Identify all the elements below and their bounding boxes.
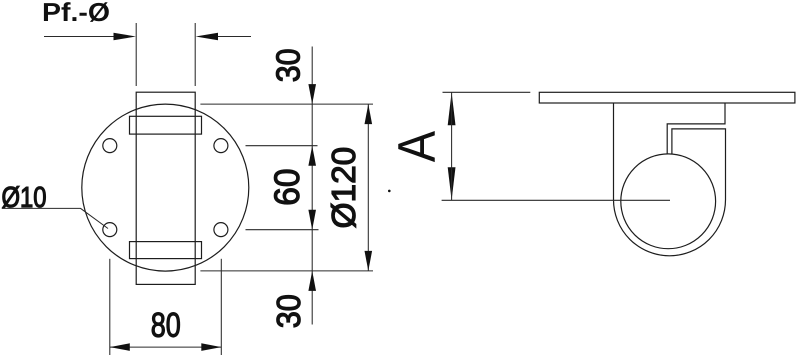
arrow 60 bottom down <box>308 210 316 230</box>
extension line 80 left <box>109 259 111 355</box>
wheel circle side view <box>621 154 716 249</box>
arrow Pf right <box>196 33 218 41</box>
arrow 80 left <box>110 343 130 351</box>
stray dot <box>388 190 391 193</box>
extension line wheel axis <box>442 199 670 201</box>
svg-text:A: A <box>387 131 446 162</box>
arrow A top <box>448 92 456 125</box>
extension line circle bottom <box>200 270 373 272</box>
svg-text:Pf.-Ø: Pf.-Ø <box>42 0 110 27</box>
Pf dim line right segment <box>218 36 252 38</box>
dim line 30-60-30 <box>311 47 313 325</box>
svg-text:Ø10: Ø10 <box>1 182 46 214</box>
extension line right of Pf dim <box>194 23 196 86</box>
svg-text:80: 80 <box>151 307 181 345</box>
arrow d120 top <box>365 104 373 124</box>
top slot rectangle <box>130 116 202 134</box>
arrow 30 bottom up <box>308 271 316 291</box>
bottom slot rectangle <box>130 242 202 259</box>
extension line bottom hole row <box>246 229 319 231</box>
dim line diameter 120 <box>367 104 369 271</box>
bolt hole top-right <box>214 139 228 153</box>
arrow 30 top down <box>308 84 316 104</box>
arrow 60 top up <box>308 146 316 166</box>
extension line left of Pf dim <box>135 23 137 86</box>
extension line circle top <box>200 103 373 105</box>
arrow 80 right <box>201 343 221 351</box>
extension line 80 right <box>220 259 222 355</box>
bolt hole bottom-right <box>214 223 228 237</box>
bolt hole bottom-left <box>103 223 117 237</box>
leader line diameter 10 <box>2 208 108 228</box>
Pf dim line left segment <box>44 36 114 38</box>
plate circle front view <box>82 104 249 271</box>
extension line top hole row <box>246 145 318 147</box>
svg-text:30: 30 <box>270 49 307 83</box>
fork outline with U bottom <box>614 103 726 256</box>
mounting plate side view <box>539 92 795 103</box>
dim line 80 <box>110 346 222 348</box>
svg-text:60: 60 <box>268 169 307 206</box>
dim line A <box>451 92 453 200</box>
arrow Pf left <box>114 33 136 41</box>
arrow A bottom <box>448 167 456 200</box>
bolt hole top-left <box>103 139 117 153</box>
svg-text:Ø120: Ø120 <box>325 147 362 229</box>
svg-text:30: 30 <box>270 294 307 328</box>
fork hook upper edge <box>667 103 725 154</box>
column rectangle front view <box>136 92 195 284</box>
arrow d120 bottom <box>365 251 373 271</box>
extension line plate top <box>443 91 531 93</box>
